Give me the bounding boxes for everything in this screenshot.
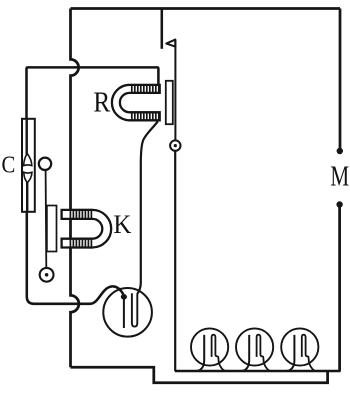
lamp L3 [281, 328, 318, 371]
pendulum pivot knob [39, 158, 51, 170]
tube C envelope [22, 119, 35, 212]
electromagnet K horseshoe core [62, 210, 112, 248]
wire: lamp rail [175, 370, 341, 373]
terminal dot: M lower [336, 201, 342, 207]
electromagnet R horseshoe core [112, 85, 160, 120]
pendulum armature plate [47, 206, 57, 252]
svg-text:K: K [113, 209, 131, 239]
interrupter armature wire upper [174, 40, 176, 141]
valve tube envelope [103, 288, 152, 337]
label C [2, 152, 16, 178]
tube C internal lead wires [26, 119, 29, 212]
electromagnet R winding hatching top leg [132, 84, 159, 94]
wire: feed from bus down to contact post [161, 9, 164, 49]
wire: bottom return with steps [71, 367, 328, 383]
contact tip triangle [166, 40, 175, 47]
pendulum bob (circle with dot) [40, 268, 54, 282]
label R [93, 87, 110, 119]
svg-text:R: R [93, 87, 110, 119]
tube C lower electrode [24, 172, 32, 182]
valve left electrode with knob [121, 294, 127, 328]
wire: from tube C bottom to valve left electrode (crosses main vertical) [27, 212, 124, 304]
label M (motor terminals) [330, 161, 349, 193]
lamp L1 [191, 328, 228, 371]
lamp L2 [236, 328, 273, 371]
interrupter armature wire lower down to lamp rail [174, 151, 176, 371]
pendulum rod wire [45, 170, 48, 269]
svg-text:M: M [330, 161, 349, 193]
tube C upper electrode [24, 154, 32, 166]
svg-text:C: C [2, 152, 16, 178]
valve right plate [132, 293, 137, 326]
electromagnet R winding hatching bottom leg [132, 111, 159, 121]
wire: coil R bottom to valve right plate [137, 121, 157, 293]
armature weight knob (circle with dot) [170, 140, 180, 150]
label K [113, 209, 131, 239]
armature bar [166, 81, 173, 124]
wire: from tube C top to coil R (crosses main vertical) [27, 67, 159, 119]
terminal dot: M upper [337, 148, 343, 154]
wire: right branch below M down to lamp rail [338, 207, 341, 372]
wire: top supply bus [71, 7, 341, 10]
electromagnet K winding hatching top leg [70, 209, 91, 220]
wire: right branch down to M upper terminal [339, 9, 342, 149]
wire: left main vertical with two crossover hops [71, 9, 79, 368]
electromagnet K winding hatching bottom leg [70, 238, 91, 249]
